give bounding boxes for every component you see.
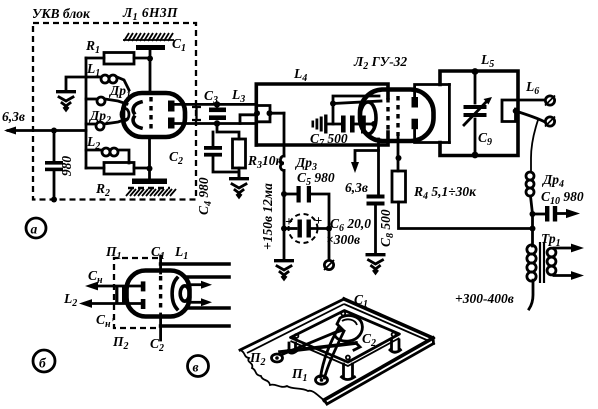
short arrow fig b lower [192, 301, 203, 304]
wire anode bottom to L3 [172, 122, 256, 125]
grid (dashed column) [149, 97, 152, 133]
output line fig b upper [187, 275, 229, 279]
ground under C8 [366, 253, 386, 273]
output terminal (after C5) [324, 260, 334, 270]
bottom line fig b [161, 324, 229, 328]
node R1/C1 junction [147, 56, 153, 62]
antenna terminal 1 [545, 96, 555, 106]
center line fig b [159, 256, 162, 340]
cathode line down to chassis [148, 137, 151, 180]
anode bars [168, 101, 175, 112]
anode bus [448, 85, 451, 143]
grid 2 dashed column [396, 96, 399, 136]
svg-text:в: в [193, 360, 199, 375]
inner plate thickness [291, 338, 400, 366]
circled a [26, 218, 46, 238]
heater tap 6,3в [345, 151, 379, 196]
anode tank L5 rectangle [440, 52, 518, 156]
anode bars [412, 97, 419, 108]
svg-text:×300в: ×300в [326, 232, 360, 247]
svg-text:+300-400в: +300-400в [455, 291, 514, 306]
foot right [390, 340, 401, 352]
cross lead from P2 [283, 330, 341, 354]
link coil L6 [502, 79, 544, 122]
electrolytic C6 [281, 194, 371, 247]
anode bars fig b [141, 281, 146, 291]
short arrow fig b upper [192, 283, 203, 286]
foot bottom [342, 364, 355, 380]
node R2 junction [147, 166, 153, 172]
feedthrough cap at box edge [192, 106, 201, 121]
capacitor 980 (heater bypass) [45, 131, 74, 203]
wire anode top to C3 [172, 103, 256, 106]
svg-text:а: а [31, 222, 38, 237]
anode leads to L5 bus [415, 85, 450, 99]
triode U1 (6N3P) envelope [123, 93, 185, 137]
svg-text:+: + [285, 214, 293, 229]
resistor R1 [85, 38, 150, 64]
circled b [33, 350, 55, 372]
transformer Tr1 [527, 214, 584, 309]
heater feed wire 6,3в [2, 109, 86, 135]
choke Dr1 [86, 83, 131, 105]
foot left [288, 343, 297, 353]
ground (UKV block) [56, 77, 86, 110]
resistor R3 with C4 to ground [196, 123, 284, 216]
inductor L2 [86, 134, 129, 163]
trimmer C7 500 [310, 96, 381, 149]
wire bus left [85, 58, 88, 168]
top line L1 fig b [161, 262, 229, 266]
outer plate top-right edge (double heavy) [344, 299, 433, 338]
choke Dr2 [86, 108, 127, 130]
ground under R3 [229, 177, 249, 197]
neutralizing capacitor plates between leads [115, 287, 118, 303]
hairpin lead to P1 [321, 327, 345, 378]
chassis ground plate C2 [126, 149, 183, 196]
standoff screws [294, 334, 298, 338]
capacitor C5 980 [281, 170, 335, 258]
capacitor C1 (to chassis) [123, 33, 186, 93]
cathode oval [360, 102, 376, 134]
cathode lead down [377, 139, 380, 195]
antenna terminal 2 [545, 117, 555, 127]
grid 1 dashed column [386, 98, 389, 133]
svg-text:+: + [315, 213, 323, 228]
choke Dr3 on grid-leak line [280, 113, 317, 194]
dashed box fig b (3 sides) [114, 258, 158, 328]
resistor R4 [392, 171, 533, 229]
outer plate bottom-right edge (double, thickness) [324, 338, 433, 400]
svg-text:6,3в: 6,3в [2, 109, 25, 124]
long bus lead [280, 343, 356, 352]
torn left edge [240, 350, 324, 400]
capacitor C10 980 [530, 189, 584, 222]
grid dashes fig b [159, 276, 162, 312]
capacitor C3 [204, 88, 226, 127]
P2 pad [272, 354, 283, 362]
neutralizing cap Cn arrow [85, 268, 141, 290]
cathode arcs [133, 102, 141, 128]
inner plate [291, 311, 400, 363]
UKV block dashed enclosure [33, 23, 196, 200]
coupling loop L3 [231, 87, 284, 124]
svg-text:+150в 12ма: +150в 12ма [260, 183, 275, 250]
ground under C6 [274, 229, 294, 280]
neutralizing cap Cn' arrow [63, 291, 141, 330]
outer plate top-left edge (double) [240, 299, 344, 350]
capacitor C8 500 [367, 195, 397, 254]
B+ feed down to choke Dr4 [531, 120, 538, 172]
triode envelope fig b [127, 271, 190, 317]
inductor L1 [86, 61, 129, 90]
node B+ / R4 wire junction [530, 226, 536, 232]
resistor R2 [86, 163, 150, 200]
svg-text:980: 980 [59, 156, 74, 177]
svg-text:6,3в: 6,3в [345, 180, 368, 195]
tank coil L4 rectangle [256, 66, 388, 145]
tetrode U2 (GU-32) envelope [360, 90, 434, 142]
output line fig b lower [187, 306, 229, 310]
screen lead to R4 [397, 136, 400, 171]
circled v [188, 356, 209, 377]
socket hole [334, 316, 362, 342]
variable capacitor C9 [464, 68, 493, 158]
choke Dr4 [526, 172, 564, 214]
svg-text:УКВ блок: УКВ блок [32, 6, 91, 21]
cathode arc fig b [172, 278, 177, 309]
